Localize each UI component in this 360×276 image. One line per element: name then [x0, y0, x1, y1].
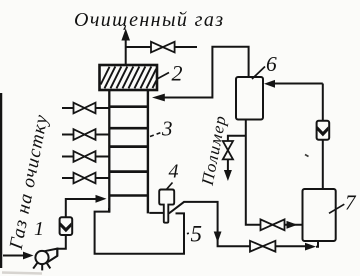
valve V3 (vertical) on polymer outlet [223, 141, 233, 159]
svg-text:7: 7 [345, 191, 357, 215]
valve V5 on bottom transfer line [250, 241, 275, 252]
device 4 (seal pot with dip leg) [159, 190, 174, 223]
label 5 with tick [187, 222, 202, 247]
wire: purified gas riser with up arrow [121, 29, 130, 68]
svg-text:1: 1 [34, 218, 44, 240]
scan artifact: left edge strip [0, 93, 2, 268]
vessel 5 top ledge right of column [149, 212, 164, 214]
vessel 6 (separator) [236, 77, 263, 120]
pump 1 (blower) [33, 249, 57, 271]
wire: top gas line left segment [126, 46, 151, 48]
svg-text:Очищенный газ: Очищенный газ [74, 9, 223, 31]
svg-text:2: 2 [172, 61, 183, 86]
vessel 5 (bottom receiver) [95, 208, 184, 254]
column bottom line [109, 194, 149, 196]
wire: rotameter to column feed arrow [66, 195, 107, 217]
svg-text:3: 3 [161, 117, 173, 141]
scan artifact: small tick near right riser [305, 155, 309, 157]
svg-text:5: 5 [191, 222, 203, 247]
wire: feed line into pump with arrow [3, 252, 34, 260]
column trays [109, 107, 149, 172]
wire: right riser upper segment [322, 84, 324, 122]
wire: top gas line right segment [175, 46, 197, 48]
rotameter FI2 [317, 121, 330, 140]
label 2 with tick [157, 61, 183, 86]
wire: into vessel 7 with arrow [285, 221, 303, 229]
label 7 with tick [329, 191, 357, 215]
svg-text:4: 4 [169, 161, 179, 183]
condenser 2 (hatched box) [100, 65, 158, 90]
inlet valve row 4 [62, 173, 109, 184]
inlet valve row 2 [62, 129, 109, 140]
wire: bottom line into vessel 7 with arrow [275, 241, 318, 251]
valve V4 on 6->7 line [261, 219, 285, 230]
valve V1 on purified gas line [151, 42, 175, 53]
scan artifact: bottom-left smear [2, 273, 42, 274]
label 4 with tick [167, 161, 179, 190]
wire: transfer line from vessel 5 neck to down-arrow corner [169, 202, 250, 246]
wire: polymer outlet down arrow [224, 159, 232, 181]
svg-text:Полимер: Полимер [198, 114, 230, 187]
rotameter FI1 [60, 217, 73, 235]
label 3 with tick [150, 117, 173, 141]
wire: vessel 6 bottom down and across to valve [246, 120, 261, 225]
wire: right riser lower segment [322, 140, 324, 189]
svg-text:Газ на очистку: Газ на очистку [6, 113, 53, 252]
label 6 with tick [252, 52, 277, 79]
inlet valve row 3 [62, 151, 109, 162]
wire: polymer branch [228, 136, 246, 141]
column 3 walls [109, 90, 148, 213]
svg-text:6: 6 [266, 52, 277, 76]
vessel 7 (polymer receiver) [303, 189, 336, 241]
wire: recycle line from top header down into column (arrow into column) [152, 47, 249, 102]
inlet valve row 1 [62, 103, 109, 114]
wire: pump discharge up to rotameter [57, 235, 66, 256]
wire: return line into vessel 6 with arrow [264, 80, 323, 88]
